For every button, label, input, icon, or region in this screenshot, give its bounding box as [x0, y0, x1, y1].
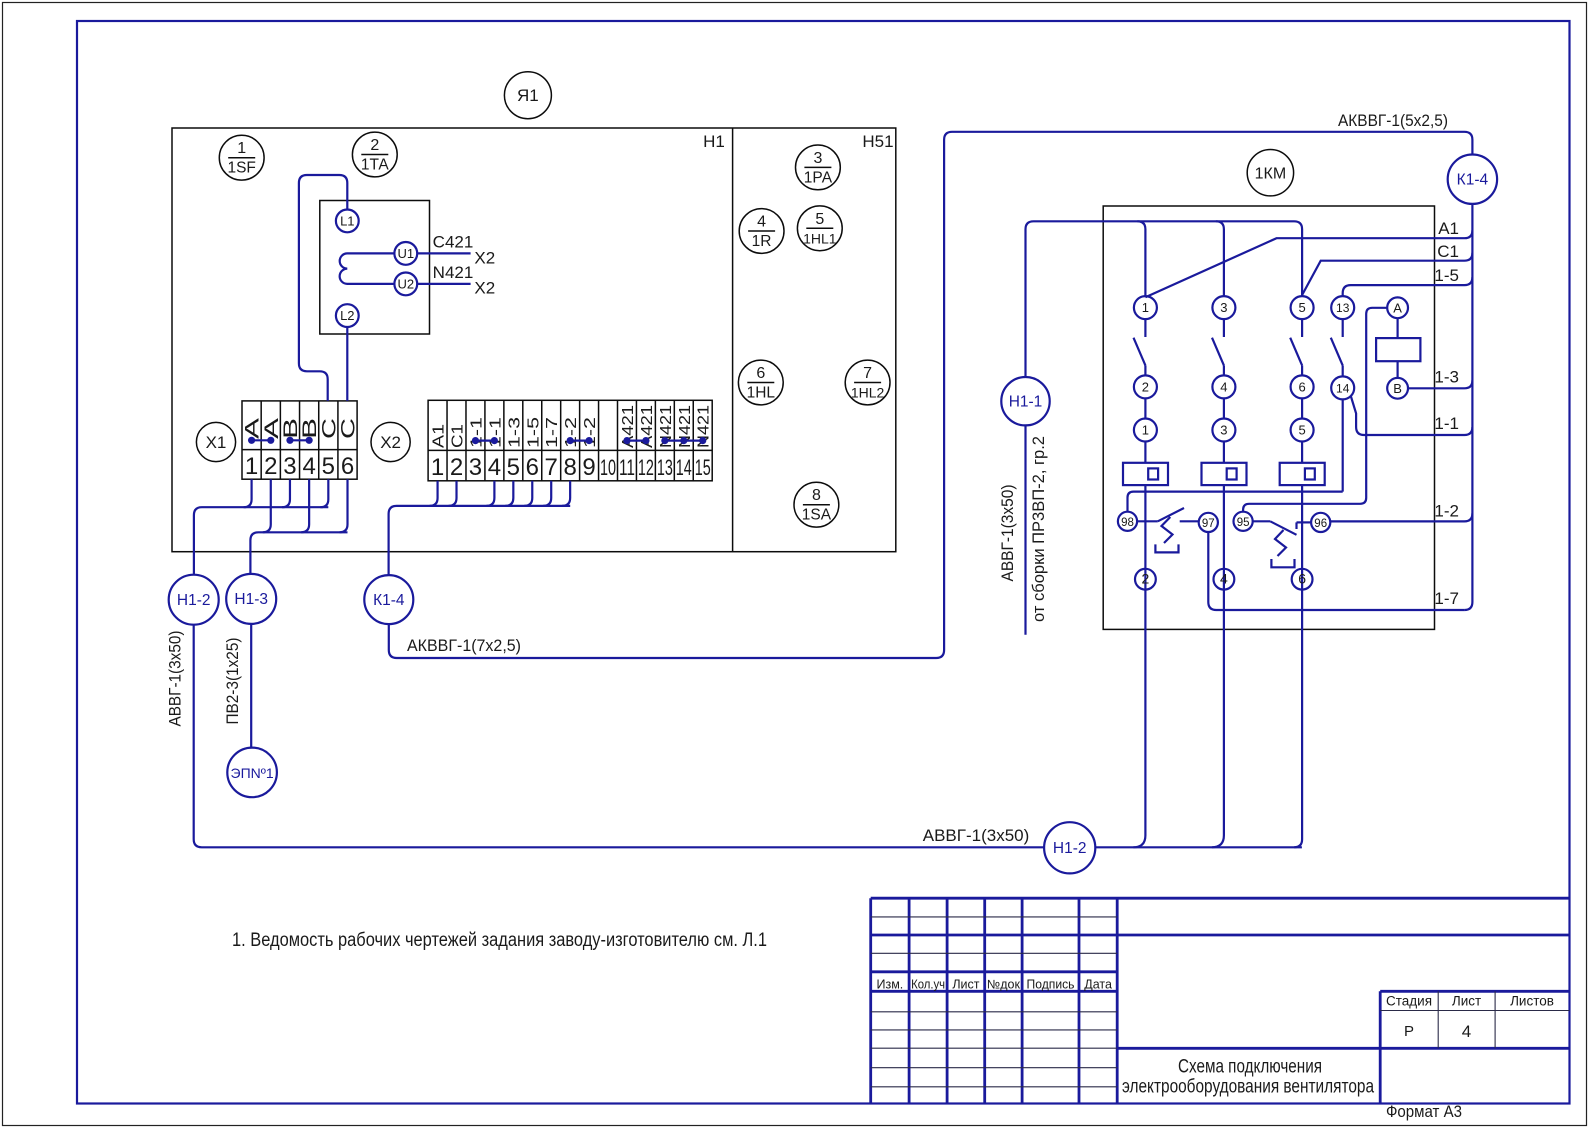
- svg-text:98: 98: [1121, 517, 1134, 529]
- svg-text:Дата: Дата: [1084, 978, 1112, 992]
- svg-text:5: 5: [1298, 423, 1305, 438]
- svg-text:А: А: [262, 417, 283, 439]
- svg-text:2: 2: [1142, 571, 1150, 587]
- svg-text:8: 8: [812, 487, 821, 504]
- svg-text:Стадия: Стадия: [1386, 994, 1432, 1009]
- svg-text:Х2: Х2: [380, 433, 401, 452]
- svg-text:1-7: 1-7: [1434, 589, 1459, 608]
- svg-text:3: 3: [1220, 423, 1227, 438]
- svg-text:14: 14: [676, 455, 692, 480]
- svg-text:В: В: [281, 418, 302, 439]
- svg-text:1ТА: 1ТА: [361, 157, 390, 174]
- svg-text:1SA: 1SA: [802, 507, 832, 524]
- svg-text:Р: Р: [1404, 1023, 1414, 1040]
- svg-text:Я1: Я1: [517, 86, 539, 105]
- svg-text:Изм.: Изм.: [877, 978, 904, 992]
- svg-text:ПВ2-3(1х25): ПВ2-3(1х25): [223, 638, 242, 725]
- svg-text:1: 1: [431, 454, 444, 481]
- svg-text:К1-4: К1-4: [1457, 172, 1489, 189]
- svg-text:95: 95: [1237, 517, 1250, 529]
- svg-text:АВВГ-1(3х50): АВВГ-1(3х50): [165, 631, 184, 727]
- svg-text:6: 6: [1298, 571, 1306, 587]
- svg-text:АВВГ-1(3х50): АВВГ-1(3х50): [923, 826, 1030, 845]
- svg-text:С: С: [339, 418, 360, 439]
- svg-text:1-5: 1-5: [525, 417, 542, 448]
- svg-text:3: 3: [813, 150, 822, 167]
- svg-text:U1: U1: [397, 246, 414, 261]
- svg-text:1КМ: 1КМ: [1255, 166, 1287, 183]
- svg-text:4: 4: [757, 214, 766, 231]
- svg-text:10: 10: [600, 455, 616, 480]
- svg-text:ЭПNº1: ЭПNº1: [231, 765, 274, 781]
- svg-text:7: 7: [863, 365, 872, 382]
- svg-text:97: 97: [1202, 518, 1215, 530]
- svg-text:Х2: Х2: [474, 249, 495, 268]
- svg-text:96: 96: [1314, 518, 1327, 530]
- svg-text:13: 13: [1336, 301, 1350, 315]
- svg-text:С421: С421: [433, 233, 474, 252]
- svg-text:6: 6: [526, 454, 539, 481]
- svg-text:13: 13: [657, 455, 673, 480]
- svg-text:Н1: Н1: [703, 132, 725, 151]
- svg-text:1HL: 1HL: [747, 385, 776, 402]
- svg-text:1-5: 1-5: [1434, 266, 1459, 285]
- svg-text:Х1: Х1: [206, 433, 227, 452]
- svg-text:4: 4: [302, 453, 315, 480]
- svg-text:А: А: [1393, 300, 1402, 315]
- svg-text:L2: L2: [340, 308, 354, 323]
- svg-text:3: 3: [283, 453, 296, 480]
- svg-text:5: 5: [507, 454, 520, 481]
- svg-text:1РА: 1РА: [804, 169, 833, 186]
- svg-text:7: 7: [545, 454, 558, 481]
- svg-text:11: 11: [619, 455, 635, 480]
- svg-text:1SF: 1SF: [227, 160, 255, 177]
- svg-text:2: 2: [264, 453, 277, 480]
- svg-text:Кол.уч: Кол.уч: [911, 978, 945, 992]
- svg-text:от сборки ПР3ВП-2, гр.2: от сборки ПР3ВП-2, гр.2: [1029, 436, 1048, 622]
- svg-text:5: 5: [1298, 300, 1305, 315]
- svg-text:1-1: 1-1: [1434, 414, 1459, 433]
- svg-text:1. Ведомость рабочих чертежей: 1. Ведомость рабочих чертежей задания за…: [232, 930, 767, 951]
- svg-text:4: 4: [1462, 1022, 1471, 1041]
- svg-text:1: 1: [1142, 300, 1149, 315]
- svg-text:А1: А1: [431, 424, 448, 448]
- svg-text:14: 14: [1336, 381, 1350, 395]
- svg-text:1-3: 1-3: [1434, 368, 1459, 387]
- svg-text:1: 1: [1142, 423, 1149, 438]
- svg-text:Н1-1: Н1-1: [1009, 394, 1043, 411]
- svg-text:Лист: Лист: [952, 978, 979, 992]
- svg-text:С1: С1: [450, 424, 467, 448]
- svg-text:В: В: [1393, 381, 1402, 396]
- svg-text:3: 3: [469, 454, 482, 481]
- svg-text:А: А: [243, 417, 264, 439]
- svg-text:Х2: Х2: [474, 279, 495, 298]
- svg-text:Н1-2: Н1-2: [1053, 840, 1087, 857]
- svg-text:Листов: Листов: [1510, 994, 1554, 1009]
- svg-text:4: 4: [1220, 571, 1228, 587]
- svg-text:№док: №док: [987, 978, 1021, 992]
- svg-text:1HL2: 1HL2: [851, 385, 885, 401]
- svg-text:К1-4: К1-4: [373, 592, 405, 609]
- svg-text:1-7: 1-7: [544, 417, 561, 448]
- svg-text:А1: А1: [1438, 219, 1459, 238]
- svg-text:L1: L1: [340, 213, 354, 228]
- svg-text:Н51: Н51: [862, 132, 893, 151]
- svg-text:1HL1: 1HL1: [803, 230, 837, 246]
- svg-text:АКВВГ-1(5х2,5): АКВВГ-1(5х2,5): [1338, 111, 1448, 130]
- svg-text:1-3: 1-3: [506, 417, 523, 448]
- svg-text:2: 2: [370, 137, 379, 154]
- svg-text:N421: N421: [433, 263, 474, 282]
- svg-text:5: 5: [815, 211, 824, 228]
- svg-text:3: 3: [1220, 300, 1227, 315]
- svg-text:5: 5: [322, 453, 335, 480]
- svg-text:12: 12: [638, 455, 654, 480]
- svg-text:1: 1: [245, 453, 258, 480]
- svg-text:В: В: [300, 418, 321, 439]
- svg-text:Формат А3: Формат А3: [1386, 1102, 1462, 1121]
- svg-text:Схема подключения: Схема подключения: [1178, 1057, 1322, 1078]
- svg-text:Н1-3: Н1-3: [234, 591, 268, 608]
- svg-text:Лист: Лист: [1452, 994, 1481, 1009]
- svg-text:С: С: [319, 418, 340, 439]
- svg-text:4: 4: [488, 454, 501, 481]
- svg-text:Н1-2: Н1-2: [177, 592, 211, 609]
- svg-text:15: 15: [695, 455, 711, 480]
- svg-text:С1: С1: [1437, 242, 1459, 261]
- svg-text:АВВГ-1(3х50): АВВГ-1(3х50): [998, 485, 1017, 582]
- svg-text:АКВВГ-1(7х2,5): АКВВГ-1(7х2,5): [407, 636, 521, 655]
- svg-text:1R: 1R: [752, 233, 772, 250]
- svg-text:2: 2: [1142, 379, 1149, 394]
- svg-text:Подпись: Подпись: [1027, 978, 1075, 992]
- svg-text:4: 4: [1220, 379, 1227, 394]
- svg-text:1: 1: [237, 140, 246, 157]
- svg-text:электрооборудования вентилятор: электрооборудования вентилятора: [1122, 1077, 1374, 1098]
- svg-text:1-2: 1-2: [1434, 502, 1459, 521]
- svg-text:6: 6: [756, 365, 765, 382]
- svg-text:2: 2: [450, 454, 463, 481]
- svg-text:U2: U2: [397, 276, 414, 291]
- svg-text:8: 8: [563, 454, 576, 481]
- svg-text:9: 9: [582, 454, 595, 481]
- svg-text:6: 6: [1298, 379, 1305, 394]
- svg-text:6: 6: [341, 453, 354, 480]
